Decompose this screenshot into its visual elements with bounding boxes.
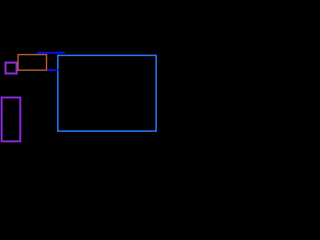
node orange box bbox=[18, 55, 47, 71]
node small purple square bbox=[6, 63, 17, 74]
node large blue box bbox=[58, 55, 156, 131]
node tall purple box bbox=[2, 98, 21, 142]
wire middle blue link bbox=[47, 69, 59, 71]
wire upper blue link bbox=[37, 52, 65, 54]
